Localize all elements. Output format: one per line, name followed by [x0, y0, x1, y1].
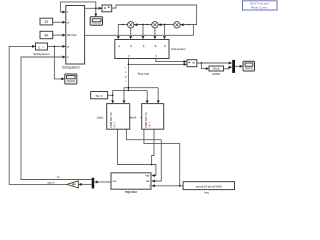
- wire demux lower out to gain: [81, 183, 92, 185]
- svg-text:RMS1: RMS1: [213, 72, 221, 76]
- block BA tag: [91, 92, 108, 99]
- wire mux to scope3: [235, 65, 241, 67]
- wire regulator out to demux: [97, 181, 111, 183]
- svg-text:A B C: A B C: [113, 121, 116, 127]
- svg-text:×: ×: [42, 45, 44, 49]
- svg-text:Subsystem1: Subsystem1: [33, 52, 50, 56]
- block Scope2: [65, 74, 77, 84]
- svg-text:chef1: chef1: [97, 115, 104, 119]
- block Scope1: [90, 17, 102, 26]
- block powergui: [243, 1, 278, 10]
- wire elbow into RMS: [201, 63, 206, 69]
- block busbar Subsystem: [115, 40, 187, 59]
- product circle C1: [128, 22, 134, 28]
- wire chef feed lower B: [113, 90, 148, 100]
- wire busbar bottom-left measurement: [128, 59, 130, 91]
- svg-text:s90 Out2: s90 Out2: [67, 34, 77, 37]
- wire chef1 bottom1 to regulator port1: [118, 129, 156, 175]
- arrowheads: [32, 7, 243, 188]
- product circle C2: [152, 22, 158, 28]
- wire chef1 bottom2 gate line: [127, 129, 162, 140]
- wire rail from top block to product chain: [112, 5, 197, 25]
- wire chef2 bottom1 to right drop: [144, 129, 180, 186]
- svg-text:RMS: RMS: [213, 67, 220, 71]
- wire branch to Scope2: [54, 46, 61, 79]
- block constant 90: [40, 31, 53, 38]
- wire freq to regulator port3: [154, 185, 183, 187]
- block freq: [183, 182, 234, 195]
- svg-text:c: c: [124, 80, 127, 82]
- block constant 10: [40, 18, 53, 25]
- wire chain drop mid: [142, 25, 144, 36]
- svg-text:agent: agent: [47, 180, 54, 184]
- wire down to regulator port2: [154, 140, 161, 181]
- svg-text:Subsystem2: Subsystem2: [62, 65, 80, 69]
- svg-text:PWM IGBT Inv: PWM IGBT Inv: [146, 111, 148, 127]
- wire feedback left inner to port tv: [21, 57, 92, 180]
- block small measure: [187, 60, 197, 67]
- svg-text:b: b: [123, 76, 127, 78]
- wire constant 90 to port s90: [53, 34, 63, 36]
- product circle C3: [174, 22, 180, 28]
- svg-text:5A: F: 5A: F: [96, 94, 103, 98]
- wire branch down to Scope1: [95, 8, 97, 15]
- wire Subsystem1 out to port se: [48, 45, 63, 47]
- block ToWorkspace top: [102, 5, 112, 12]
- svg-text:regulator: regulator: [125, 190, 139, 194]
- wire busbar bottom-right down: [156, 59, 185, 62]
- wire chain drop C2: [154, 28, 156, 36]
- svg-text:freq: freq: [204, 191, 209, 195]
- gain triangle: [67, 181, 78, 188]
- svg-text:out: out: [113, 179, 117, 183]
- svg-text:chef2: chef2: [129, 115, 136, 119]
- wire Subsystem2 Out1 to top block: [85, 7, 101, 9]
- wire feedback loop into Subsystem2 port1: [60, 2, 95, 12]
- block RMS: [209, 66, 224, 76]
- block chef2: [129, 104, 163, 130]
- svg-text:PWM IGBT Inv: PWM IGBT Inv: [111, 111, 113, 127]
- mux display: [232, 60, 235, 73]
- svg-text:a: a: [124, 71, 127, 73]
- wire chef2 bottom2 merge: [152, 129, 154, 164]
- block Subsystem2: [62, 6, 84, 70]
- wire small block out to mux: [197, 62, 230, 64]
- wire chain drop C1: [130, 28, 132, 36]
- svg-text:90: 90: [44, 34, 48, 38]
- wire feedback left outer to Subsystem1: [9, 46, 67, 184]
- block Subsystem1: [33, 43, 50, 56]
- svg-text:A B C: A B C: [148, 121, 151, 127]
- wire BA tag out: [108, 94, 113, 96]
- wire chain drop right: [164, 25, 166, 36]
- svg-text:10: 10: [44, 20, 48, 24]
- svg-text:Bus bar: Bus bar: [138, 72, 151, 76]
- label Vabc vertical: [123, 67, 127, 82]
- svg-text:Vab: Vab: [145, 175, 150, 178]
- svg-text:14: 14: [56, 175, 60, 179]
- wire chef feed upper A: [124, 88, 158, 101]
- red speck: [192, 24, 193, 25]
- wire RMS out to mux port2: [224, 67, 231, 69]
- wire constant 10 to port s0: [53, 21, 63, 23]
- svg-text:V: V: [123, 67, 127, 69]
- wire product chain: [118, 25, 193, 36]
- svg-text:Real Contr: Real Contr: [251, 6, 268, 10]
- wire lower into small block: [129, 63, 185, 65]
- svg-text:Subsystem: Subsystem: [171, 47, 186, 51]
- block regulator: [111, 173, 151, 194]
- demux bar: [92, 178, 95, 189]
- block Scope3: [243, 61, 255, 71]
- block chef1: [97, 104, 131, 130]
- wire Subsystem2 Out2 to product chain: [85, 25, 194, 36]
- svg-text:ramdr10-tamd/1600: ramdr10-tamd/1600: [196, 184, 223, 188]
